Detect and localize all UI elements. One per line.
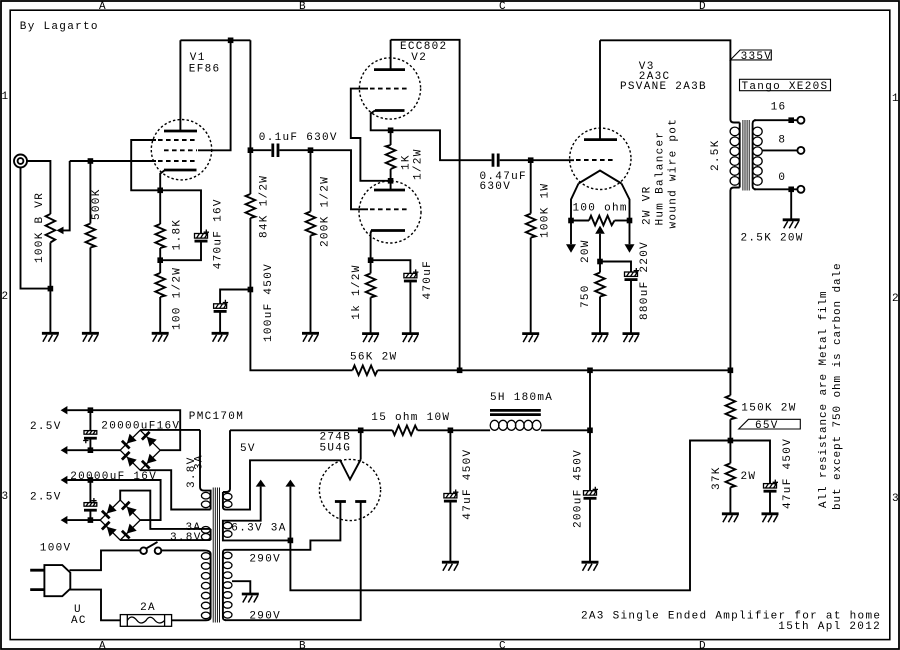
label: 750 20W xyxy=(580,239,592,308)
svg-text:A: A xyxy=(99,641,107,650)
wire: winding B bottom to bridge2 bottom corner xyxy=(120,539,210,541)
ground: 200uF xyxy=(582,562,599,571)
wire: heater elevation 65V line xyxy=(290,441,730,591)
fuse F1 2A xyxy=(120,615,171,627)
wire: 0 tap xyxy=(754,188,797,190)
V2 upper cathode xyxy=(371,111,405,131)
wire: jack tip to pot top xyxy=(27,161,50,214)
junction: lower plate / upper grid xyxy=(388,178,394,184)
junction: filament right xyxy=(627,218,633,224)
svg-text:1.8K: 1.8K xyxy=(172,219,184,251)
wire: 6.3V bottom tap xyxy=(225,539,290,541)
svg-text:1k 1/2W: 1k 1/2W xyxy=(351,264,363,319)
svg-text:100 1/2W: 100 1/2W xyxy=(172,267,184,330)
down arrow: filament supply left xyxy=(566,221,576,253)
tube V3 2A3 envelope xyxy=(570,128,631,189)
resistor 200K 1/2W xyxy=(306,150,316,333)
svg-text:16: 16 xyxy=(771,102,787,114)
potentiometer 100 ohm hum balancer xyxy=(571,216,630,226)
wire: plate rail down to coupling node xyxy=(249,40,251,150)
svg-text:6.3V 3A: 6.3V 3A xyxy=(231,523,286,535)
label: 274B 5U4G xyxy=(320,432,352,455)
wire: jack sleeve down to pot bottom xyxy=(21,168,51,289)
transformer T1 core xyxy=(213,488,219,623)
V2 lower grid xyxy=(370,208,410,210)
capacitor 100uF 450V xyxy=(214,290,251,334)
junction: coupling node left xyxy=(248,147,254,153)
wire: V2 upper plate to B+ xyxy=(391,40,460,371)
svg-text:1: 1 xyxy=(892,93,900,105)
label: 1K 1/2W xyxy=(401,148,425,180)
svg-text:V2: V2 xyxy=(411,52,427,64)
svg-text:All resistance are Metal film: All resistance are Metal film xyxy=(818,290,830,508)
svg-text:3: 3 xyxy=(2,491,10,503)
svg-text:630V: 630V xyxy=(480,181,512,193)
tube V1 EF86 envelope xyxy=(151,120,211,180)
hum pot wiper arrow xyxy=(595,226,605,262)
arrow: 2.5V rail B top xyxy=(61,476,68,484)
resistor 100 1/2W xyxy=(155,260,165,333)
svg-text:2.5V: 2.5V xyxy=(30,421,62,433)
svg-text:2A: 2A xyxy=(140,602,156,614)
wire: bridge1 DC- to 2.5V rail A bottom xyxy=(67,449,120,451)
capacitor 470uF 16V (V1 cathode bypass) xyxy=(160,230,209,261)
svg-text:335V: 335V xyxy=(741,51,773,63)
svg-text:D: D xyxy=(699,641,707,650)
junction: filament left xyxy=(568,218,574,224)
terminal: 0 xyxy=(797,186,804,193)
svg-text:470uF 16V: 470uF 16V xyxy=(212,198,224,269)
V4 anode plates xyxy=(335,500,366,503)
junction: V1 cathode node xyxy=(157,188,163,194)
ground: 100 ohm resistor xyxy=(152,333,169,342)
svg-text:750: 750 xyxy=(580,284,592,308)
ground: bias cap xyxy=(762,514,779,523)
svg-text:100V: 100V xyxy=(40,543,72,555)
transformer T1 5V winding xyxy=(223,492,232,510)
down arrow: filament supply right xyxy=(625,221,635,253)
arrow: heater supply 2 xyxy=(285,480,295,487)
wire: winding B top to bridge2 xyxy=(120,491,210,529)
plug P1 xyxy=(30,565,70,596)
wire: right anode to 290V bottom tap xyxy=(225,502,361,621)
V3 grid xyxy=(576,159,616,161)
junction: V3 grid node xyxy=(528,157,534,163)
ground: 1k xyxy=(362,334,379,343)
svg-text:200uF 450V: 200uF 450V xyxy=(572,449,584,528)
input jack J1 xyxy=(14,155,27,168)
choke 5H 180mA xyxy=(490,410,541,430)
svg-text:0: 0 xyxy=(778,172,786,184)
svg-text:15 ohm 10W: 15 ohm 10W xyxy=(371,412,450,424)
resistor 56K 2W xyxy=(353,366,378,376)
svg-text:2.5K: 2.5K xyxy=(710,139,722,171)
junction: pot bottom xyxy=(48,286,54,292)
junction: V2 cathode node xyxy=(368,257,374,263)
tube V2 ECC802 upper triode envelope xyxy=(359,58,420,119)
V1 screen grid g2 xyxy=(164,40,231,150)
junction: upper cathode node xyxy=(388,128,394,134)
svg-text:D: D xyxy=(699,1,707,13)
transformer T1 3.8V winding A xyxy=(200,430,211,510)
resistor 1k 1/2W (V2 lower cathode) xyxy=(366,260,376,333)
wire: to V3 grid xyxy=(531,159,574,161)
svg-text:3A: 3A xyxy=(193,454,205,470)
ground: 200K xyxy=(302,333,319,342)
wire: 0 tap to ground xyxy=(790,189,792,220)
svg-text:Hum Balancer: Hum Balancer xyxy=(654,131,666,226)
capacitor 20000uF16V (A) xyxy=(83,410,97,450)
junction: rail B top xyxy=(88,477,94,483)
wire: 16 tap xyxy=(754,119,797,121)
svg-text:but except 750 ohm is carbon d: but except 750 ohm is carbon dale xyxy=(832,262,844,510)
ground: 47uF xyxy=(442,562,459,571)
V1 plate xyxy=(164,40,197,131)
wire: fuse to primary bottom xyxy=(172,619,206,621)
arrow: 2.5V rail A top xyxy=(61,406,68,414)
junction: 0 tap xyxy=(788,187,794,193)
ground: 37K xyxy=(722,514,739,523)
capacitor 470uF (V2 cathode bypass) xyxy=(371,260,419,333)
svg-text:100K 1W: 100K 1W xyxy=(539,183,551,238)
junction: 84K bottom / decoupling xyxy=(248,287,254,293)
svg-text:2W: 2W xyxy=(741,471,757,483)
svg-text:20000uF 16V: 20000uF 16V xyxy=(70,471,157,483)
V2 upper grid xyxy=(370,88,410,90)
resistor 150K 2W xyxy=(726,370,736,440)
wire: switch to primary top xyxy=(161,549,204,551)
ground: 100K 1W xyxy=(522,334,539,343)
junction: rail B bottom xyxy=(88,517,94,523)
capacitor 47uF 450V (bias filter) xyxy=(730,441,778,514)
V3 filament xyxy=(571,171,630,221)
svg-text:470uF: 470uF xyxy=(422,260,434,300)
transformer T1 primary 100V xyxy=(201,550,210,620)
resistor 750 20W xyxy=(595,262,605,334)
capacitor 20000uF 16V (B) xyxy=(84,480,97,520)
wire: rectifier filament top wire xyxy=(230,429,361,431)
junction: B+ rail at riser xyxy=(457,368,463,374)
bridge rectifier BR2 xyxy=(100,500,140,540)
wire: 8 tap xyxy=(762,149,797,151)
wire: arrow stub B top xyxy=(67,479,90,481)
label: 2W VR / Hum Balancer / wound wire pot xyxy=(641,118,679,229)
svg-text:PSVANE 2A3B: PSVANE 2A3B xyxy=(620,81,707,93)
wire: pot bottom to ground xyxy=(49,243,51,334)
svg-text:wound wire pot: wound wire pot xyxy=(667,118,679,229)
svg-text:100K B VR: 100K B VR xyxy=(34,192,46,263)
label: 3.8V 3A (winding A, rotated) xyxy=(186,454,206,488)
wire: cathode follower output xyxy=(391,130,492,160)
wire: coupling node to V2 lower grid xyxy=(311,150,369,209)
bridge rectifier BR1 xyxy=(120,430,160,470)
arrow: 2.5V rail B bottom xyxy=(61,516,68,524)
ground: 500K xyxy=(82,333,99,342)
wire: winding A bottom to bridge1 xyxy=(140,470,210,509)
junction: 6.3V elevation node xyxy=(288,538,294,544)
label: ECC802 V2 xyxy=(400,41,447,64)
svg-text:3.8V: 3.8V xyxy=(170,532,202,544)
wire: V3 plate to OPT primary top xyxy=(600,40,730,119)
transformer T1 3.8V winding B xyxy=(201,527,210,541)
svg-text:47uF 450V: 47uF 450V xyxy=(462,449,474,520)
junction: coupling node right xyxy=(308,147,314,153)
svg-text:20000uF16V: 20000uF16V xyxy=(101,421,180,433)
wire: 6.3V top tap to heater arrow xyxy=(225,487,261,521)
potentiometer 100K B VR xyxy=(46,214,56,243)
terminal: 16 xyxy=(797,117,804,124)
wire: wiper to V1 grid xyxy=(70,160,156,162)
svg-text:By Lagarto: By Lagarto xyxy=(20,21,99,33)
junction: 200uF node xyxy=(587,428,593,434)
svg-text:C: C xyxy=(499,1,507,13)
capacitor 200uF 450V xyxy=(584,430,599,562)
svg-text:5V: 5V xyxy=(240,443,256,455)
svg-text:2.5K 20W: 2.5K 20W xyxy=(741,232,804,244)
V2 upper plate xyxy=(374,40,405,70)
svg-text:47uF 450V: 47uF 450V xyxy=(782,438,794,509)
svg-text:8: 8 xyxy=(778,134,786,146)
label: V1 EF86 xyxy=(189,52,221,76)
switch S1 xyxy=(140,542,161,554)
svg-text:200K 1/2W: 200K 1/2W xyxy=(319,176,331,247)
svg-text:65V: 65V xyxy=(755,420,779,432)
label: V3 2A3C PSVANE 2A3B xyxy=(620,61,707,93)
svg-text:100uF 450V: 100uF 450V xyxy=(263,263,275,342)
svg-text:880uF 220V: 880uF 220V xyxy=(639,241,651,320)
wire: decoupling node to B+ rail xyxy=(250,290,352,371)
label: 0.47uF 630V xyxy=(480,171,527,193)
wire: choke output riser xyxy=(589,370,591,430)
ground: 100uF xyxy=(212,333,229,342)
ground: 880uF xyxy=(623,334,640,343)
V2 lower cathode xyxy=(371,231,405,261)
svg-text:20W: 20W xyxy=(580,239,592,263)
resistor 1.8K xyxy=(155,190,165,260)
resistor 500K xyxy=(86,161,96,333)
wire: left anode to 290V top tap xyxy=(225,502,340,550)
wire: bridge2 DC- to 2.5V rail B bottom xyxy=(67,519,100,521)
svg-text:2W VR: 2W VR xyxy=(641,185,653,225)
junction: plate rail / screen xyxy=(228,38,234,44)
wire: 5V winding top tap riser xyxy=(223,430,230,492)
transformer T1 HV secondary 290-0-290 xyxy=(223,550,232,620)
transformer T2 secondary xyxy=(753,120,763,189)
svg-text:B: B xyxy=(299,1,307,13)
wire: plug top to switch xyxy=(70,550,141,570)
junction: rail A top xyxy=(88,407,94,413)
resistor 84K 1/2W (V1 plate load) xyxy=(246,150,256,289)
capacitor 0.47uF 630V xyxy=(493,154,531,167)
junction: rail A bottom xyxy=(88,447,94,453)
resistor 100K 1W (grid leak) xyxy=(526,160,536,333)
flag: 335V xyxy=(730,50,772,63)
terminal: 8 xyxy=(797,147,804,154)
junction: B+ at OPT xyxy=(728,368,734,374)
svg-text:1/2W: 1/2W xyxy=(413,148,425,180)
resistor 1K 1/2W (V2 upper cathode) xyxy=(386,130,396,181)
tube V2 ECC802 lower triode envelope xyxy=(359,181,421,243)
svg-text:1K: 1K xyxy=(401,154,413,170)
svg-text:2.5V: 2.5V xyxy=(30,492,62,504)
V3 plate xyxy=(584,40,617,139)
svg-text:B: B xyxy=(299,641,307,650)
junction: hum pot wiper node xyxy=(597,259,603,265)
junction: choke output node xyxy=(587,368,593,374)
arrow: 2.5V rail A bottom xyxy=(61,446,68,454)
junction: grid node xyxy=(88,158,94,164)
arrow: heater supply 1 xyxy=(256,480,266,487)
ground: pot xyxy=(42,333,59,342)
svg-text:500K: 500K xyxy=(91,188,103,220)
svg-text:5U4G: 5U4G xyxy=(320,443,352,455)
label: Tango XE20S (boxed) xyxy=(740,79,831,93)
V2 lower plate xyxy=(374,181,405,190)
V1 control grid g1 xyxy=(158,160,196,162)
svg-text:2: 2 xyxy=(2,291,10,303)
wire: choke to 200uF node xyxy=(541,429,590,431)
ground: 750 xyxy=(592,334,609,343)
wire: bridge2 DC+ to 2.5V rail B xyxy=(90,480,160,520)
wire: 5V winding bottom to rectifier filament xyxy=(226,460,340,509)
svg-text:PMC170M: PMC170M xyxy=(189,411,244,423)
svg-text:Tango XE20S: Tango XE20S xyxy=(742,81,829,93)
svg-text:A: A xyxy=(99,1,107,13)
svg-text:150K 2W: 150K 2W xyxy=(741,403,796,415)
junction: 47uF node xyxy=(448,428,454,434)
label: 3A 3.8V (winding B) xyxy=(170,522,202,544)
svg-text:EF86: EF86 xyxy=(189,64,221,76)
wire: elevation node to heater arrow xyxy=(289,487,291,541)
svg-text:56K 2W: 56K 2W xyxy=(350,352,397,364)
svg-text:37K: 37K xyxy=(711,466,723,490)
wire: lower plate to upper grid xyxy=(351,89,391,181)
svg-text:1: 1 xyxy=(2,91,10,103)
wire: B+ rail xyxy=(378,369,731,371)
wire: V1 plate rail xyxy=(180,39,250,41)
transformer T2 Tango XE20S primary xyxy=(730,120,740,371)
svg-text:5H 180mA: 5H 180mA xyxy=(490,392,553,404)
tube V4 rectifier envelope xyxy=(319,459,380,520)
wire: plug bottom to fuse xyxy=(70,590,121,621)
svg-text:V1: V1 xyxy=(190,52,206,64)
ground: HV center tap xyxy=(242,594,259,603)
junction: 1.8K bottom xyxy=(157,257,163,263)
ground: OPT 0 tap xyxy=(783,220,800,229)
svg-text:3: 3 xyxy=(892,493,900,505)
resistor 15 ohm 10W xyxy=(361,426,451,436)
ground: 470uF xyxy=(402,334,419,343)
svg-text:AC: AC xyxy=(71,615,87,627)
svg-text:100 ohm: 100 ohm xyxy=(573,203,628,215)
capacitor 880uF 220V xyxy=(600,262,639,334)
capacitor 0.1uF 630V xyxy=(250,144,310,158)
wire: HV center tap to ground xyxy=(232,581,250,594)
V1 suppressor grid g3 xyxy=(131,140,197,190)
svg-text:0.1uF 630V: 0.1uF 630V xyxy=(259,132,338,144)
junction: rectifier output xyxy=(358,428,364,434)
svg-text:C: C xyxy=(499,641,507,650)
junction: 65V node xyxy=(728,438,734,444)
wire: 47uF node to choke xyxy=(450,429,490,431)
wire: arrow stub A top xyxy=(67,409,90,411)
svg-text:290V: 290V xyxy=(249,610,281,622)
wire: winding A top to bridge1 top corner xyxy=(140,429,200,431)
svg-text:15th Apl 2012: 15th Apl 2012 xyxy=(778,621,881,633)
flag: 65V xyxy=(739,419,801,432)
transformer T1 6.3V winding xyxy=(223,521,232,541)
resistor 37K 2W xyxy=(726,441,736,514)
svg-text:290V: 290V xyxy=(249,553,281,565)
junction: 16 tap xyxy=(788,117,794,123)
wire: bridge1 DC+ to 2.5V rail A xyxy=(90,410,180,450)
V4 filament xyxy=(340,430,361,479)
svg-text:84K 1/2W: 84K 1/2W xyxy=(258,175,270,238)
pot wiper arrow xyxy=(57,161,70,234)
transformer T2 core xyxy=(743,120,749,191)
svg-text:2: 2 xyxy=(892,293,900,305)
wire: cathode node to bypass cap xyxy=(160,190,201,233)
capacitor 47uF 450V (first filter) xyxy=(444,430,459,562)
label: U AC xyxy=(71,604,87,627)
V1 cathode xyxy=(160,170,196,190)
